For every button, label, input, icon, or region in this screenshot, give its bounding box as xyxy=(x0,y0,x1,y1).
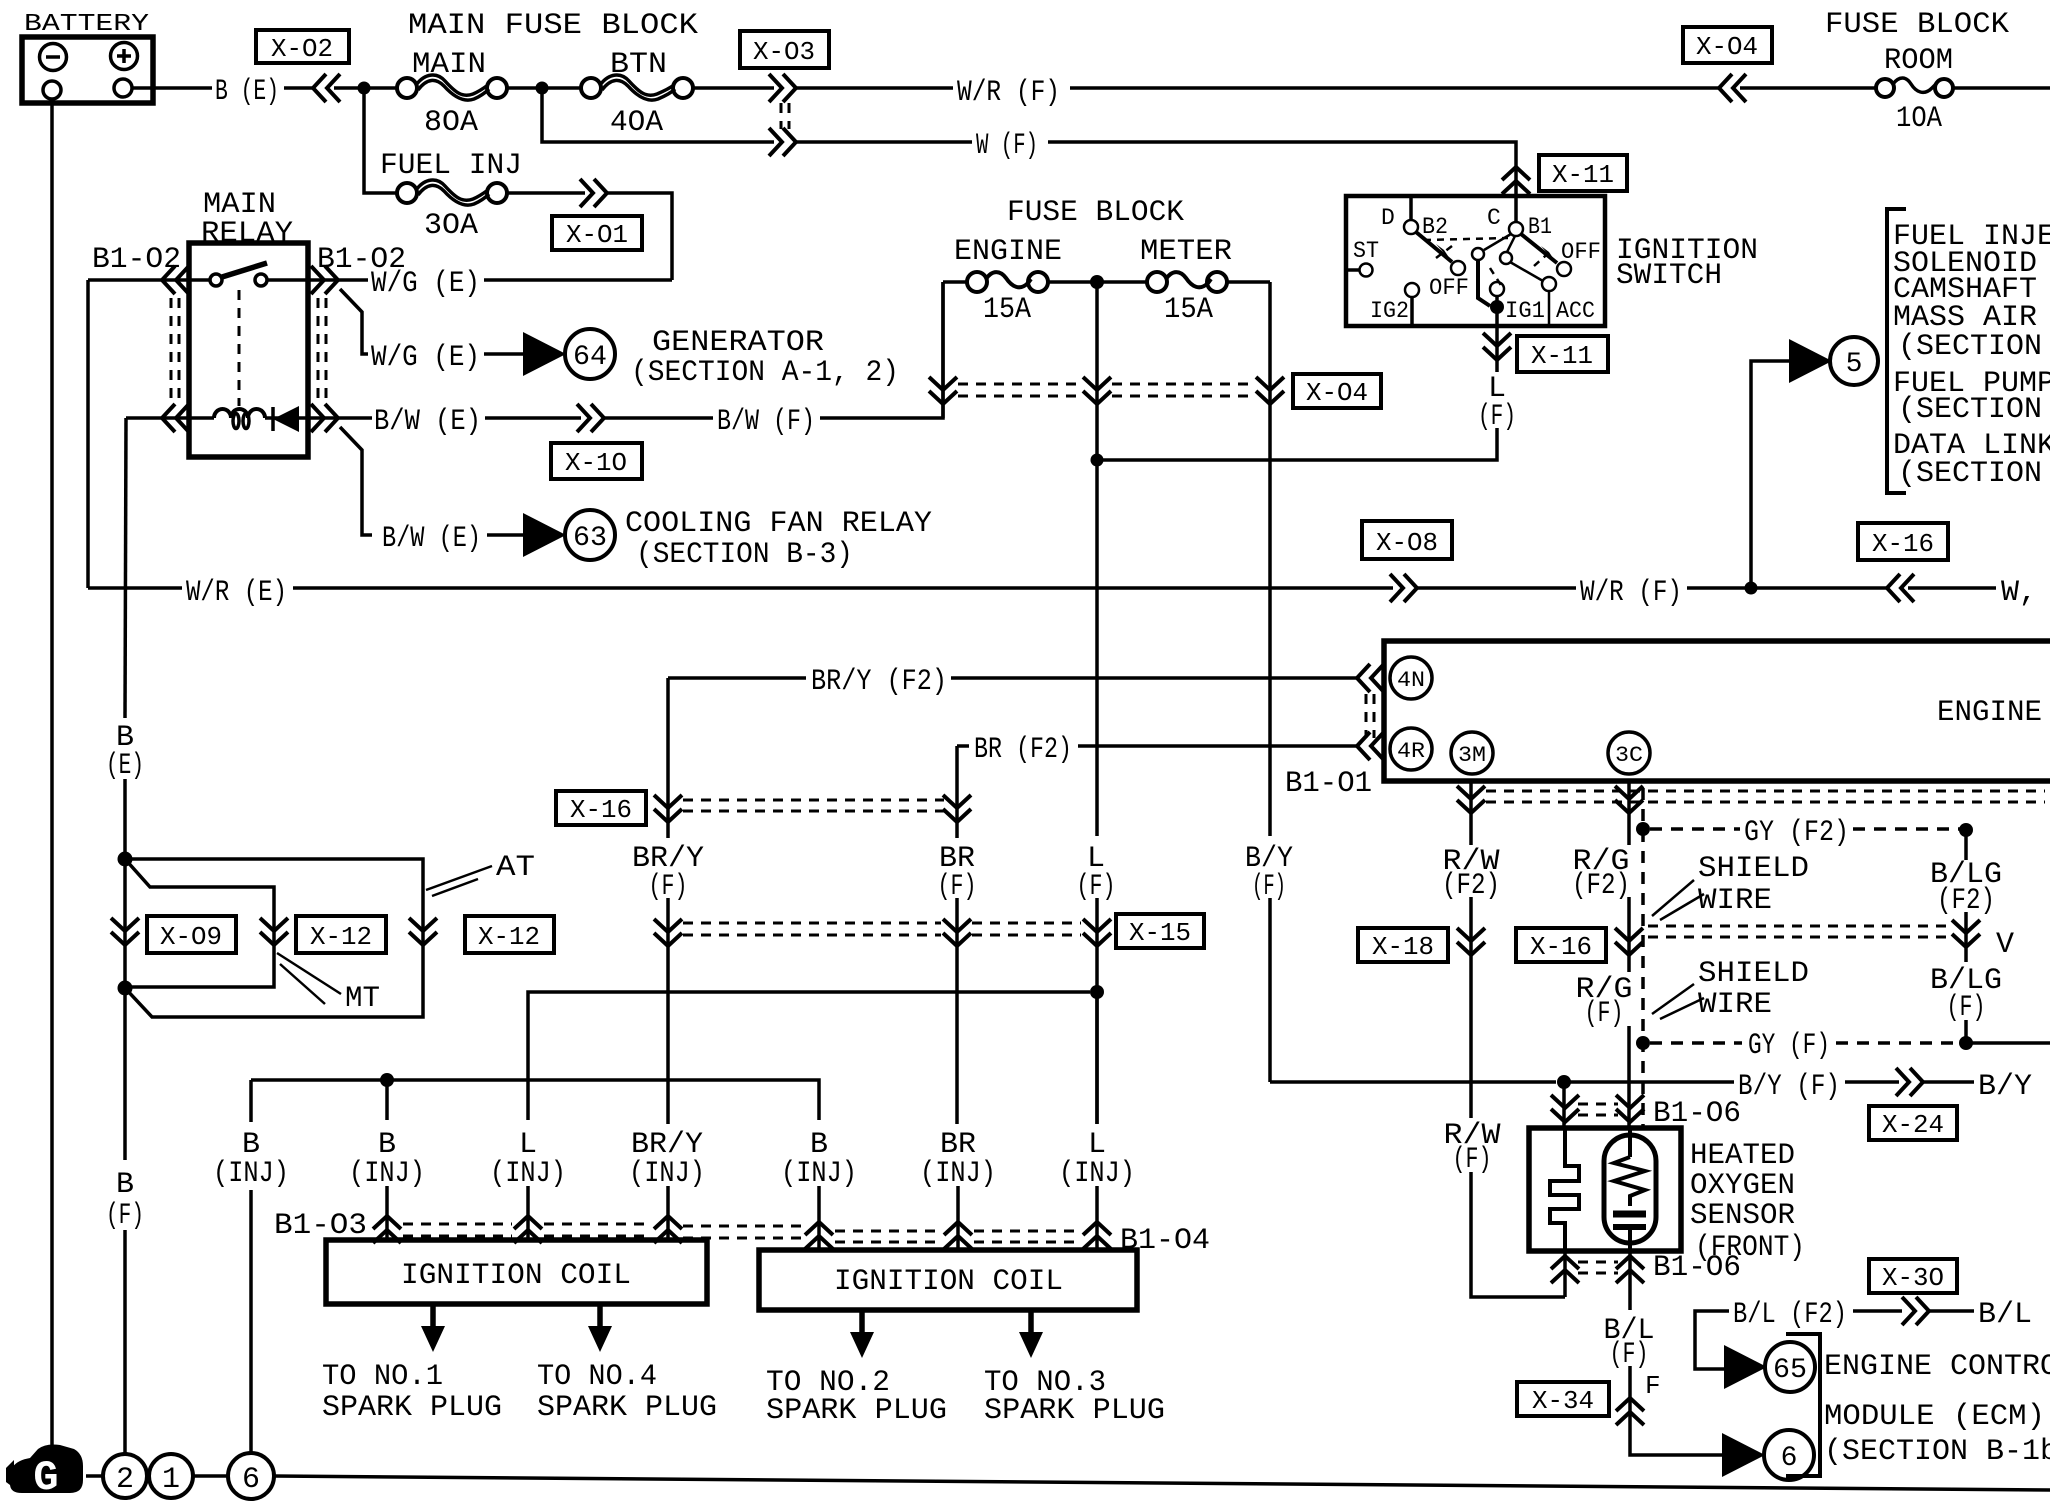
connector B1-04 row xyxy=(805,1222,1111,1249)
wire 1 to 6 xyxy=(193,1474,228,1478)
wire BR/Y column xyxy=(666,678,670,838)
svg-text:B/W (E): B/W (E) xyxy=(374,405,481,439)
pin 3C xyxy=(1608,732,1650,774)
wire B (INJ) coil2 drop xyxy=(812,1080,819,1120)
connector X-16 mid xyxy=(1516,926,1950,962)
svg-text:X-O4: X-O4 xyxy=(1306,378,1368,408)
svg-text:HEATED: HEATED xyxy=(1690,1139,1795,1173)
wire FUEL INJ feed xyxy=(364,94,397,193)
node junction B/Y xyxy=(1557,1075,1571,1089)
connector X-08 xyxy=(1362,521,1452,602)
svg-text:W/R (F): W/R (F) xyxy=(957,76,1060,110)
node junction L xyxy=(1091,454,1104,467)
wire W/R row to X-03 xyxy=(693,86,774,90)
svg-text:(SECTION B-1b: (SECTION B-1b xyxy=(1824,1435,2050,1469)
wire L (INJ) drop xyxy=(1095,998,1099,1124)
svg-text:(INJ): (INJ) xyxy=(490,1157,566,1191)
svg-text:C: C xyxy=(1487,205,1501,231)
node junction B/LG top xyxy=(1959,823,1973,837)
svg-text:X-3O: X-3O xyxy=(1882,1263,1944,1293)
svg-text:1: 1 xyxy=(162,1463,180,1497)
svg-text:ENGINE CONTROL: ENGINE CONTROL xyxy=(1824,1350,2050,1384)
svg-text:(SECTION: (SECTION xyxy=(1898,393,2042,427)
relay MAIN RELAY xyxy=(189,188,308,457)
svg-text:1OA: 1OA xyxy=(1896,102,1942,136)
svg-text:COOLING FAN RELAY: COOLING FAN RELAY xyxy=(625,507,932,541)
svg-text:X-11: X-11 xyxy=(1552,160,1614,190)
svg-text:SHIELD: SHIELD xyxy=(1698,957,1809,991)
wire xyxy=(1853,1309,1902,1313)
wire to ECM pin 6 xyxy=(1630,1430,1723,1455)
svg-text:IGNITION COIL: IGNITION COIL xyxy=(834,1265,1063,1299)
wire R/G column from 3C xyxy=(1627,781,1631,845)
wire BR column xyxy=(955,746,959,838)
svg-text:B/L (F2): B/L (F2) xyxy=(1733,1298,1847,1332)
spark output arrow no4 xyxy=(537,1304,717,1425)
svg-text:SWITCH: SWITCH xyxy=(1616,259,1722,293)
svg-text:GENERATOR: GENERATOR xyxy=(652,326,824,360)
svg-text:63: 63 xyxy=(573,523,607,554)
svg-text:4N: 4N xyxy=(1397,668,1425,693)
svg-text:GY (F): GY (F) xyxy=(1748,1029,1830,1063)
svg-text:ACC: ACC xyxy=(1556,298,1595,324)
svg-text:(INJ): (INJ) xyxy=(629,1157,705,1191)
svg-text:X-1O: X-1O xyxy=(565,448,627,478)
destination list bracket xyxy=(1887,209,2050,493)
off-page arrow 6 xyxy=(1722,1430,1814,1480)
wire B/L column xyxy=(1628,1366,1632,1430)
wire R/W return to heater xyxy=(1471,1172,1565,1297)
node junction W/R xyxy=(1745,582,1758,595)
relay coil xyxy=(126,409,265,428)
svg-text:B/W (E): B/W (E) xyxy=(382,522,481,556)
wire xyxy=(1687,586,1887,590)
wire METER fuse drop B/Y xyxy=(1268,282,1272,836)
wire GY (F) right tail xyxy=(1966,1041,2050,1045)
connector X-15 row xyxy=(654,914,1204,948)
wire xyxy=(507,86,581,90)
connector X-04 top xyxy=(1683,27,1772,102)
wire xyxy=(334,86,397,90)
spark output arrow no2 xyxy=(766,1310,947,1428)
svg-text:X-12: X-12 xyxy=(478,922,540,952)
wire B/Y column xyxy=(1268,898,1272,1082)
connector X-16 right xyxy=(1858,523,1948,602)
svg-text:FUEL INJ: FUEL INJ xyxy=(380,149,522,183)
svg-text:AT: AT xyxy=(496,851,535,885)
svg-text:G: G xyxy=(33,1454,58,1502)
connector B1-03 row xyxy=(373,1216,803,1243)
fuse METER 15A xyxy=(1140,235,1270,327)
connector B1-06 bottom xyxy=(1551,1251,1741,1310)
wire L(F) to fuse block junction xyxy=(1097,428,1497,460)
node junction AT top xyxy=(118,852,133,867)
svg-text:5: 5 xyxy=(1846,349,1863,380)
off-page arrow 63 COOLING FAN RELAY xyxy=(523,507,932,572)
wire ENGINE fuse drop xyxy=(941,282,945,418)
pin ACC xyxy=(1542,277,1556,291)
svg-text:W/R (F): W/R (F) xyxy=(1580,576,1682,610)
shield wire label 2 xyxy=(1652,957,1809,1022)
svg-text:6: 6 xyxy=(1781,1443,1798,1474)
wire xyxy=(817,1186,821,1250)
svg-text:B (E): B (E) xyxy=(215,75,279,109)
svg-text:(F2): (F2) xyxy=(1572,869,1630,903)
wire xyxy=(123,779,127,1160)
svg-text:MAIN FUSE BLOCK: MAIN FUSE BLOCK xyxy=(408,9,698,43)
svg-text:SPARK PLUG: SPARK PLUG xyxy=(984,1394,1165,1428)
svg-text:B1-O4: B1-O4 xyxy=(1120,1224,1210,1258)
connector row dashes 3M 3C xyxy=(1486,790,2045,793)
svg-text:FUSE BLOCK: FUSE BLOCK xyxy=(1825,8,2009,42)
svg-text:WIRE: WIRE xyxy=(1698,988,1772,1022)
svg-text:BR/Y (F2): BR/Y (F2) xyxy=(811,665,947,699)
node junction B INJ xyxy=(380,1073,394,1087)
svg-text:3C: 3C xyxy=(1615,743,1643,768)
svg-text:B/L (F: B/L (F xyxy=(1978,1298,2050,1332)
svg-text:X-15: X-15 xyxy=(1129,918,1191,948)
pin 3M xyxy=(1451,732,1493,774)
svg-text:W/R (E): W/R (E) xyxy=(186,576,287,610)
svg-text:TO NO.4: TO NO.4 xyxy=(537,1360,657,1394)
node junction GY (F) left xyxy=(1636,1036,1650,1050)
wire to edge xyxy=(1953,86,2050,90)
svg-text:X-O2: X-O2 xyxy=(271,34,333,64)
connector B1-02 right chevrons xyxy=(311,266,338,294)
svg-text:B/Y (F: B/Y (F xyxy=(1978,1070,2050,1104)
svg-text:MT: MT xyxy=(345,982,380,1016)
switch lever B1 xyxy=(1521,234,1557,263)
wire xyxy=(284,86,313,90)
wire B/W(F) to fuse block xyxy=(820,282,943,418)
wire xyxy=(1417,586,1576,590)
svg-text:6: 6 xyxy=(242,1463,260,1497)
wire xyxy=(796,140,972,144)
svg-text:X-34: X-34 xyxy=(1532,1386,1594,1416)
svg-text:X-O9: X-O9 xyxy=(160,922,222,952)
pin IG2 xyxy=(1405,283,1419,297)
svg-text:BATTERY: BATTERY xyxy=(24,11,149,38)
wire GY (F) dashed xyxy=(1650,1041,1742,1045)
connector X-02 xyxy=(256,30,349,102)
svg-text:SPARK PLUG: SPARK PLUG xyxy=(322,1391,502,1425)
wire B INJ drop coil1 xyxy=(385,1080,389,1120)
wire xyxy=(955,898,959,1124)
node junction MT bottom xyxy=(118,981,133,996)
svg-text:(F): (F) xyxy=(106,1199,144,1233)
wire B(E) vertical xyxy=(125,418,126,718)
ground G body symbol xyxy=(6,1445,83,1503)
wire xyxy=(487,533,524,537)
svg-text:X-18: X-18 xyxy=(1372,932,1434,962)
svg-text:X-16: X-16 xyxy=(1872,529,1934,559)
svg-text:W/G (E): W/G (E) xyxy=(371,267,480,301)
svg-text:(F): (F) xyxy=(1585,997,1624,1031)
svg-text:65: 65 xyxy=(1773,1355,1807,1386)
svg-text:OFF: OFF xyxy=(1429,275,1469,301)
node junction GY (F2) xyxy=(1636,822,1650,836)
svg-text:(INJ): (INJ) xyxy=(349,1157,425,1191)
wire xyxy=(1908,586,1996,590)
wire xyxy=(385,1186,389,1240)
wire xyxy=(666,1186,670,1240)
ignition switch xyxy=(1346,196,1758,326)
wire fuel inj to main relay switch xyxy=(607,193,672,280)
connector 4N chevron xyxy=(1357,664,1384,692)
svg-text:BR (F2): BR (F2) xyxy=(974,733,1072,767)
pin 4N xyxy=(1390,657,1432,699)
svg-text:X-24: X-24 xyxy=(1882,1110,1944,1140)
node junction xyxy=(358,82,371,95)
battery xyxy=(22,11,153,103)
relay switch contacts xyxy=(210,274,222,286)
switch lever B2 xyxy=(1416,232,1452,262)
svg-text:B: B xyxy=(116,1168,134,1202)
wire battery negative to ground xyxy=(50,99,54,1450)
wire relay switch row left xyxy=(88,278,210,282)
node junction GY (F) right xyxy=(1959,1036,1973,1050)
wire into switch xyxy=(1514,167,1518,222)
ignition coil 1 xyxy=(326,1240,707,1304)
svg-text:64: 64 xyxy=(573,342,607,373)
svg-text:X-11: X-11 xyxy=(1531,341,1593,371)
svg-text:(INJ): (INJ) xyxy=(781,1157,857,1191)
pin 4R xyxy=(1390,728,1432,770)
shield wire label 1 xyxy=(1652,852,1809,920)
svg-text:B1: B1 xyxy=(1528,214,1552,240)
wire xyxy=(507,191,585,195)
fuse FUEL INJ 30A xyxy=(380,149,522,243)
terminal circle 1 xyxy=(149,1454,193,1498)
svg-text:METER: METER xyxy=(1140,235,1232,269)
wire xyxy=(604,416,713,420)
svg-text:MODULE (ECM): MODULE (ECM) xyxy=(1824,1400,2045,1434)
wire xyxy=(484,352,524,356)
svg-text:RELAY: RELAY xyxy=(201,217,293,251)
wire L vertical xyxy=(1095,282,1099,460)
shield wire dashed xyxy=(1641,788,1645,1128)
wire B/L (F2) lead xyxy=(1695,1311,1729,1369)
connector X-18 xyxy=(1358,928,1485,962)
svg-text:V: V xyxy=(1996,928,2014,962)
svg-text:4R: 4R xyxy=(1397,739,1425,764)
wire W (F) feed from junction xyxy=(542,94,774,142)
svg-text:GY (F2): GY (F2) xyxy=(1744,816,1849,850)
connector X-11 top xyxy=(1502,155,1627,194)
wire xyxy=(526,1186,530,1240)
fuse MAIN 80A xyxy=(397,48,507,140)
wire IG1 output xyxy=(1495,307,1499,372)
fuse ENGINE 15A xyxy=(943,235,1147,327)
ECM bracket xyxy=(1786,1334,2050,1476)
wire B (INJ) feed from circle 6 xyxy=(249,1190,253,1453)
wire W/R (E) long row xyxy=(88,586,182,590)
wire BR (INJ) drop xyxy=(955,1122,959,1126)
wire L (INJ) feed xyxy=(528,992,1090,1120)
wire BR/Y (F2) row xyxy=(668,676,806,680)
wire xyxy=(1964,1020,1968,1043)
svg-text:(F): (F) xyxy=(1947,991,1986,1025)
spark output arrow no3 xyxy=(984,1310,1165,1428)
connector X-04 row xyxy=(929,374,1381,408)
AT box xyxy=(125,851,535,1017)
spark output arrow no1 xyxy=(322,1304,502,1425)
heater element xyxy=(1550,1128,1579,1251)
svg-text:BTN: BTN xyxy=(610,48,667,82)
terminal circle 2 xyxy=(103,1454,147,1498)
svg-text:SENSOR: SENSOR xyxy=(1690,1199,1795,1233)
connector X-12 inner xyxy=(260,916,386,953)
svg-text:FUSE BLOCK: FUSE BLOCK xyxy=(1007,196,1184,230)
svg-text:X-O4: X-O4 xyxy=(1696,32,1758,62)
connector X-09 xyxy=(111,916,236,953)
svg-text:(SECTION A-1, 2): (SECTION A-1, 2) xyxy=(631,356,899,390)
wire BR (F2) row xyxy=(957,744,969,748)
wire B (F) to circle 2 xyxy=(123,1230,127,1454)
ignition coil 2 xyxy=(759,1250,1137,1310)
sensor element oval xyxy=(1604,1128,1656,1251)
connector B1-02 left chevrons xyxy=(162,266,189,294)
svg-text:D: D xyxy=(1381,205,1395,231)
wire xyxy=(1740,86,1876,90)
terminal circle 6 xyxy=(228,1453,274,1499)
wire L column xyxy=(1095,466,1099,836)
svg-text:X-16: X-16 xyxy=(570,795,632,825)
wire relay switch to right xyxy=(267,278,368,282)
svg-text:W,: W, xyxy=(2001,576,2037,610)
off-page arrow 64 GENERATOR xyxy=(523,326,899,390)
svg-text:B/W (F): B/W (F) xyxy=(717,405,815,439)
wire B/Y (F) row xyxy=(1270,1080,1556,1084)
wire xyxy=(1627,1026,1631,1128)
wire G to terminal 2 xyxy=(86,1474,103,1478)
wire riser to arrow 5 xyxy=(1751,361,1790,588)
svg-text:8OA: 8OA xyxy=(424,106,478,140)
wire xyxy=(1923,1080,1974,1084)
off-page arrow 65 xyxy=(1724,1342,1815,1392)
svg-text:SPARK PLUG: SPARK PLUG xyxy=(766,1394,947,1428)
svg-text:15A: 15A xyxy=(983,293,1031,327)
wire xyxy=(666,898,670,1124)
connector X-01 xyxy=(552,179,642,250)
wire branch to generator row xyxy=(340,289,368,354)
wire battery positive B(E) xyxy=(132,86,212,90)
wire left vertical B1-02 return xyxy=(86,280,90,588)
svg-text:W (F): W (F) xyxy=(976,129,1038,163)
fuse BTN 40A xyxy=(581,48,693,140)
svg-text:3M: 3M xyxy=(1458,743,1486,768)
wire xyxy=(1469,897,1473,1118)
off-page arrow 5 xyxy=(1789,337,1878,385)
svg-text:(SECTION: (SECTION xyxy=(1898,457,2042,491)
wire xyxy=(485,416,581,420)
MT box xyxy=(125,859,380,1016)
connector tie 4N-4R xyxy=(1365,694,1368,738)
wire xyxy=(1070,86,1719,90)
fuse ROOM 10A xyxy=(1876,78,1953,136)
svg-text:ROOM: ROOM xyxy=(1884,44,1953,78)
connector B1-06 top xyxy=(1551,1095,1741,1131)
connector X-24 xyxy=(1869,1068,1957,1140)
svg-text:2: 2 xyxy=(116,1463,134,1497)
svg-text:OFF: OFF xyxy=(1561,239,1601,265)
wire W/G to fuel inj fuse xyxy=(484,278,672,282)
connector X-34 xyxy=(1517,1382,1644,1425)
svg-text:(INJ): (INJ) xyxy=(1059,1157,1135,1191)
wire xyxy=(1627,897,1631,972)
node junction L coil xyxy=(1090,985,1104,999)
wire W/R (F) xyxy=(796,86,953,90)
wire xyxy=(1570,1080,1734,1084)
svg-text:4OA: 4OA xyxy=(610,106,663,140)
svg-text:ENGINE: ENGINE xyxy=(1937,696,2042,730)
wire B/LG column xyxy=(1964,830,1968,860)
connector X-16 left xyxy=(556,791,944,825)
connector X-10 xyxy=(551,404,642,479)
svg-text:TO NO.1: TO NO.1 xyxy=(322,1360,443,1394)
svg-text:(INJ): (INJ) xyxy=(920,1157,996,1191)
node junction IG1 xyxy=(1490,300,1504,314)
svg-text:W/G (E): W/G (E) xyxy=(371,341,480,375)
wire GY (F2) dashed xyxy=(1650,827,1740,831)
svg-text:X-12: X-12 xyxy=(310,922,372,952)
switch common contacts xyxy=(1472,248,1484,260)
wire bottom bus xyxy=(274,1476,2050,1490)
wire xyxy=(1845,1080,1899,1084)
heated oxygen sensor box xyxy=(1529,1128,1805,1265)
wire xyxy=(1964,912,1968,962)
svg-text:(SECTION: (SECTION xyxy=(1898,330,2042,364)
connector X-03 xyxy=(740,31,829,156)
connector X-30 xyxy=(1869,1259,1957,1325)
svg-text:SHIELD: SHIELD xyxy=(1698,852,1809,886)
wire branch to cooling fan row xyxy=(340,427,372,535)
svg-text:B2: B2 xyxy=(1422,214,1448,240)
svg-text:ST: ST xyxy=(1353,238,1379,264)
switch spokes from B1 xyxy=(1484,234,1511,250)
svg-text:IGNITION COIL: IGNITION COIL xyxy=(401,1259,631,1293)
svg-text:X-16: X-16 xyxy=(1530,932,1592,962)
svg-text:(F): (F) xyxy=(1453,1143,1492,1177)
node junction fuse block xyxy=(1090,275,1104,289)
svg-text:(SECTION B-3): (SECTION B-3) xyxy=(636,538,853,572)
svg-text:B1-O1: B1-O1 xyxy=(1285,767,1372,801)
wire R/W column from 3M xyxy=(1469,781,1473,845)
svg-text:3OA: 3OA xyxy=(424,209,478,243)
wire heater drop from B/Y junction xyxy=(1562,1082,1566,1128)
engine control module box xyxy=(1384,641,2050,781)
svg-text:(E): (E) xyxy=(106,749,144,783)
svg-text:(INJ): (INJ) xyxy=(213,1157,289,1191)
svg-text:B1-O6: B1-O6 xyxy=(1653,1251,1741,1285)
wire coil row to right xyxy=(265,416,372,420)
connector X-11 bottom xyxy=(1483,333,1608,372)
node junction xyxy=(536,82,549,95)
svg-text:15A: 15A xyxy=(1164,293,1213,327)
svg-text:IG2: IG2 xyxy=(1370,298,1409,324)
svg-text:IG1: IG1 xyxy=(1505,298,1545,324)
switch position dashes xyxy=(1424,238,1552,290)
svg-text:OXYGEN: OXYGEN xyxy=(1690,1169,1795,1203)
svg-text:WIRE: WIRE xyxy=(1698,884,1772,918)
svg-text:F: F xyxy=(1645,1371,1661,1401)
svg-text:X-O8: X-O8 xyxy=(1376,528,1438,558)
svg-text:B/Y (F): B/Y (F) xyxy=(1738,1070,1840,1104)
svg-text:SPARK PLUG: SPARK PLUG xyxy=(537,1391,717,1425)
svg-text:X-O1: X-O1 xyxy=(566,220,628,250)
wire xyxy=(1929,1309,1974,1313)
connector X-12 outer xyxy=(409,916,554,953)
